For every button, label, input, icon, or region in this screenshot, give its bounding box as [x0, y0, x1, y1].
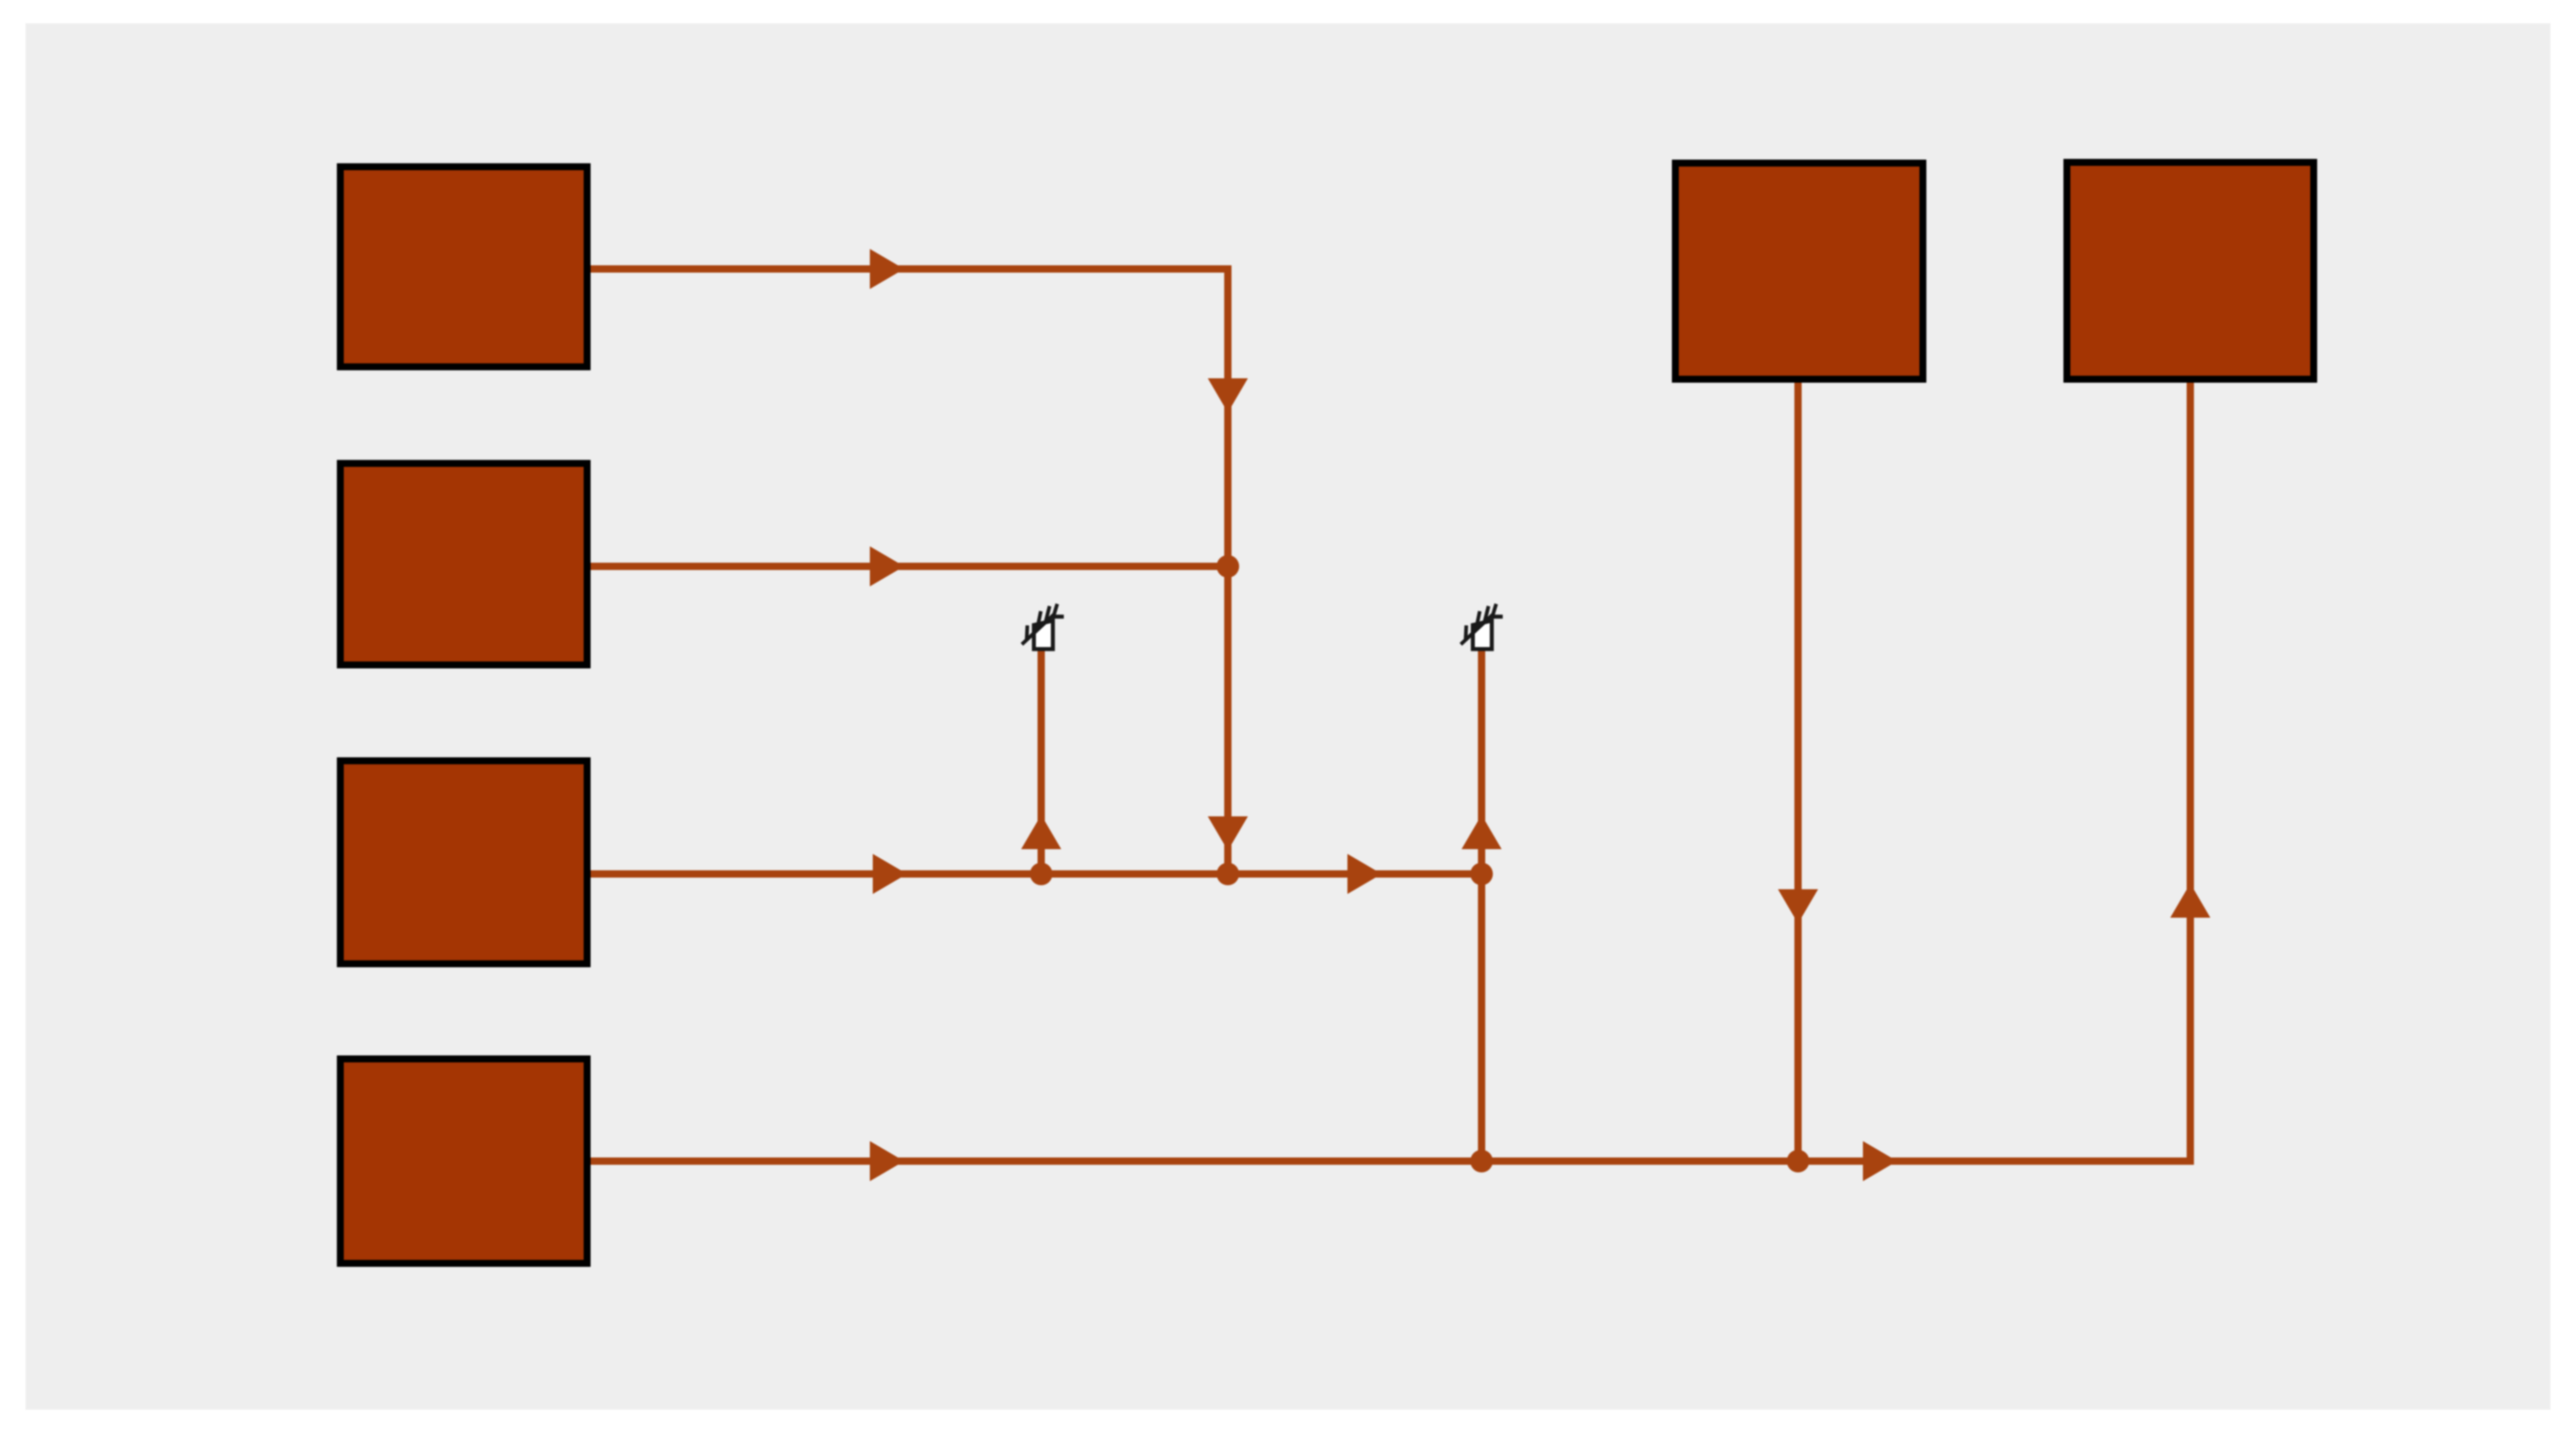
wire W3: Block3 output across middle row to icon column 2 [588, 870, 1482, 878]
junction J2 [1030, 863, 1053, 886]
arrowhead A10 right on bottom bus W4 [870, 1141, 904, 1182]
junction J6 [1787, 1150, 1810, 1173]
junction J3 [1217, 863, 1240, 886]
arrowhead A6 up on riser W5 [1022, 815, 1062, 849]
block B6 [2067, 163, 2314, 380]
block B3 [341, 761, 588, 964]
arrowhead A13 up on W4 riser into Block6 [2171, 883, 2211, 918]
arrowhead A9 up on riser W6 [1462, 815, 1502, 849]
arrowhead A2 down on W1 vertical [1208, 378, 1248, 413]
arrowhead A11 down on W7 [1778, 889, 1818, 924]
arrowhead A4 down on W1 vertical above junction J3 [1208, 816, 1248, 851]
block B1 [341, 167, 588, 367]
wire W5: riser to ground icon G1 [1038, 651, 1045, 874]
ground icon G2 [1461, 604, 1503, 649]
arrowhead A3 right on W2 [870, 547, 904, 587]
junction J5 [1471, 1150, 1493, 1173]
wire W4: Block4 output bottom bus to corner, up into Block6 [588, 381, 2190, 1161]
wire W7: Block5 output down to bottom bus [1794, 381, 1802, 1161]
wire W2: Block2 output to junction J1 [588, 563, 1228, 570]
arrowhead A12 right on bottom bus after junction J6 [1863, 1141, 1897, 1182]
ground icon G1 [1022, 604, 1065, 649]
block B4 [341, 1059, 588, 1264]
arrowhead A1 right on W1 [870, 249, 904, 289]
arrowhead A8 right on W3 before junction J4 [1347, 854, 1382, 894]
wire W6: riser through middle row down to bottom bus, up to ground icon G2 [1478, 651, 1485, 1161]
block B5 [1676, 163, 1923, 380]
junction J1 [1217, 555, 1240, 578]
arrowhead A5 right on W3 [873, 854, 907, 894]
block B2 [341, 464, 588, 665]
junction J4 [1471, 863, 1493, 886]
wire W1: Block1 output to corner, down to junction J1 [588, 269, 1228, 874]
